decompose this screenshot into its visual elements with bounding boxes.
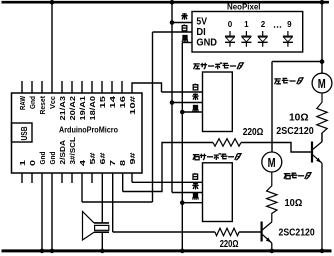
junction VCC rail / motor column [320, 0, 325, 5]
pin 14 stub (top) [111, 81, 113, 93]
pin RAW stub (top) [21, 81, 23, 93]
pin 18/A0 stub (top) [91, 81, 93, 93]
junction node B / servo1 black [180, 110, 185, 115]
svg-text:0: 0 [28, 160, 37, 166]
svg-text:5V: 5V [196, 17, 207, 28]
ellipsis dots [274, 26, 281, 27]
label shiro (white) DI [182, 24, 187, 30]
pin 6# wire to speaker [101, 173, 103, 223]
wire R1 to Q1 base [241, 143, 311, 153]
svg-text:6#: 6# [98, 151, 107, 164]
pin Gnd wire to ground rail [41, 173, 43, 251]
wire servo2 black [182, 202, 202, 204]
label right servo motor [193, 153, 241, 160]
junction ground rail / Gnd pin 2 [50, 249, 55, 254]
pin 19/A1 stub (top) [81, 81, 83, 93]
wire servo1 white [162, 91, 203, 93]
junction VCC rail / node A [170, 0, 175, 5]
svg-text:9#: 9# [128, 151, 137, 164]
servo1 shiro [193, 84, 198, 90]
pin 21/A3 stub (top) [61, 81, 63, 93]
pin Reset stub (top) [41, 81, 43, 93]
svg-text:220Ω: 220Ω [220, 238, 239, 250]
pin 15 stub (top) [101, 81, 103, 93]
LED D3 [283, 31, 293, 47]
junction motor branch [320, 59, 325, 64]
svg-text:5#: 5# [88, 151, 97, 164]
svg-text:GND: GND [196, 37, 217, 48]
svg-text:NeoPixel: NeoPixel [227, 2, 261, 12]
node A vertical (VCC net) [171, 2, 173, 193]
junction ground rail / node B [180, 249, 185, 254]
junction ground rail / Q1 emitter [320, 249, 325, 254]
label hidari motor [274, 78, 303, 84]
pin 0 stub (bottom) [31, 173, 33, 183]
svg-text:10Ω: 10Ω [285, 197, 303, 209]
wire pin8 jog [123, 143, 213, 192]
junction ground rail / speaker [100, 249, 105, 254]
pin 7 wire down [112, 173, 114, 232]
svg-text:21/A3: 21/A3 [58, 96, 67, 121]
resistor 220ohm R2 (bottom) [215, 228, 239, 236]
junction node B / servo2 black [180, 200, 185, 205]
wire pin4 to DI [82, 201, 153, 203]
left motor column from rail [321, 2, 323, 62]
svg-text:14: 14 [108, 95, 117, 109]
svg-text:Gnd: Gnd [28, 96, 37, 109]
svg-text:20/A2: 20/A2 [68, 96, 77, 121]
svg-text:18/A0: 18/A0 [88, 96, 97, 121]
wire right motor feed [271, 62, 273, 153]
svg-text:M: M [318, 76, 326, 91]
pin 8 wire down [122, 173, 124, 192]
LED D1 [241, 31, 251, 47]
svg-text:2SC2120: 2SC2120 [279, 227, 315, 239]
Arduino ProMicro U1 body [12, 93, 143, 173]
resistor 10ohm R3 (left motor) [317, 93, 327, 142]
pin 16 stub (top) [121, 81, 123, 93]
right motor M2 [262, 152, 282, 172]
transistor Q1 2SC2120 (left motor) [312, 133, 322, 251]
svg-text:8: 8 [118, 160, 127, 166]
wire servo2 red [172, 192, 203, 194]
right servo connector box [203, 163, 233, 222]
svg-text:Gnd: Gnd [38, 151, 47, 164]
USB connector box [12, 123, 33, 142]
wire servo1 red [172, 102, 203, 104]
svg-text:10Ω: 10Ω [289, 111, 309, 123]
svg-text:1: 1 [18, 160, 27, 166]
svg-text:Reset: Reset [38, 96, 47, 115]
svg-text:1: 1 [244, 20, 249, 29]
wire motor branch horizontal [272, 61, 322, 63]
pin Gnd wire to ground rail [51, 173, 53, 251]
junction ground rail / Q2 emitter [270, 249, 275, 254]
svg-text:USB: USB [20, 126, 29, 140]
speaker SP1 [83, 212, 110, 252]
LED D0 [225, 31, 235, 47]
pin Vcc wire to VCC rail [51, 2, 53, 93]
svg-text:9: 9 [287, 20, 292, 29]
label kuro (black) GND [182, 36, 188, 42]
svg-text:220Ω: 220Ω [243, 126, 264, 138]
wire pin 10# up-over [132, 83, 162, 93]
servo2 shiro [193, 173, 198, 179]
svg-text:15: 15 [98, 96, 107, 109]
junction node A / servo1 red [170, 100, 175, 105]
wire pin7 to R2 [113, 231, 215, 233]
svg-text:2/SDA: 2/SDA [58, 139, 67, 164]
LED D2 [258, 31, 268, 47]
resistor 10ohm R4 (right motor) [267, 172, 277, 222]
svg-text:7: 7 [108, 160, 117, 166]
wire DI vertical [152, 32, 154, 202]
NeoPixel module box [192, 12, 303, 53]
svg-text:Gnd: Gnd [48, 151, 57, 164]
resistor 220ohm R1 (servo row) [213, 139, 241, 147]
node B vertical (GND net) [181, 43, 183, 252]
ground rail (bottom) [2, 249, 332, 252]
svg-text:RAW: RAW [18, 95, 27, 110]
pin 3#/SCL stub (bottom) [71, 173, 73, 183]
svg-text:3#/SCL: 3#/SCL [68, 137, 77, 165]
servo1 kuro [192, 106, 198, 112]
junction VCC rail / Vcc pin [50, 0, 55, 5]
wire 5V from node A to NeoPixel [172, 22, 192, 24]
pin 2/SDA stub (bottom) [61, 173, 63, 183]
servo2 kuro [192, 193, 198, 199]
wire NeoPixel GND to node B [182, 42, 192, 44]
svg-text:19/A1: 19/A1 [78, 96, 87, 121]
svg-text:M: M [268, 155, 276, 170]
servo1 aka [192, 93, 198, 100]
svg-text:Vcc: Vcc [48, 96, 57, 109]
wire servo2 white from pin 9# [132, 181, 203, 183]
junction node A / NeoPixel 5V [170, 20, 175, 25]
svg-text:16: 16 [118, 96, 127, 109]
svg-text:2SC2120: 2SC2120 [276, 125, 314, 137]
pin Gnd stub (top) [31, 81, 33, 93]
pin 5# stub (bottom) [91, 173, 93, 183]
svg-text:ArduinoProMicro: ArduinoProMicro [59, 125, 118, 134]
left servo connector box [203, 72, 233, 132]
svg-text:10#: 10# [128, 95, 137, 115]
svg-text:0: 0 [228, 20, 233, 29]
label migi motor [284, 173, 311, 179]
servo2 aka [192, 183, 198, 190]
wire servo1 black [182, 111, 202, 113]
label aka (red) 5V [181, 13, 187, 20]
pin 4 wire down [81, 173, 83, 202]
left motor M1 [312, 62, 332, 93]
wire R2 to Q2 base [239, 231, 261, 233]
pin 9# wire down [131, 173, 133, 182]
svg-text:2: 2 [261, 20, 266, 29]
pin 20/A2 stub (top) [71, 81, 73, 93]
label left servo motor [193, 63, 243, 70]
junction ground rail / Gnd pin 1 [40, 249, 45, 254]
pin 1 stub (bottom) [21, 173, 23, 183]
power rail VCC (top) [2, 1, 330, 4]
wire NeoPixel DI left segment [153, 31, 193, 33]
transistor Q2 2SC2120 (right motor) [262, 222, 272, 252]
